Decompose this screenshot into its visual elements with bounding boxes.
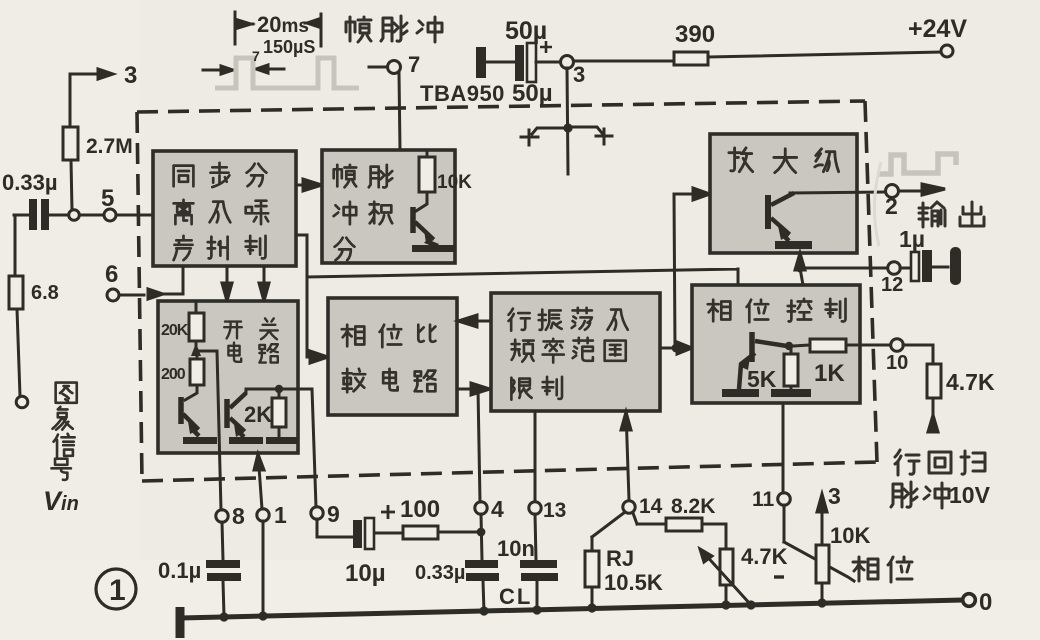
arrows sync down to switch block <box>222 266 269 301</box>
wire 6.8 to input terminal <box>17 309 20 396</box>
arrow up at 20K junction <box>191 343 201 356</box>
svg-text:+24V: +24V <box>908 15 967 43</box>
pin 2 terminal <box>886 185 899 198</box>
svg-text:0: 0 <box>979 589 992 616</box>
node 3 (supply) <box>536 61 560 64</box>
block U1e line oscillator and frequency range limiter <box>491 293 660 411</box>
IC dashed boundary TBA950 <box>137 101 877 481</box>
svg-text:11: 11 <box>752 488 775 511</box>
svg-text:200: 200 <box>161 366 186 383</box>
capacitor 0.33u at pin 4 <box>481 514 484 612</box>
rail junction dots <box>219 598 826 621</box>
resistor internal (white) <box>790 346 793 389</box>
svg-text:4: 4 <box>491 496 504 522</box>
svg-text:2.7M: 2.7M <box>86 135 133 158</box>
wire 1K to pin 10 <box>846 344 890 347</box>
svg-text:10: 10 <box>886 352 908 374</box>
label 150uS <box>263 37 315 57</box>
svg-text:10V: 10V <box>949 482 991 508</box>
svg-text:0.33µ: 0.33µ <box>2 170 58 195</box>
svg-text:3: 3 <box>573 62 585 87</box>
transistor Q2 switch <box>227 393 246 437</box>
arrow into phase comparator <box>307 351 328 363</box>
wire pin7 to integrator block <box>399 73 400 150</box>
svg-text:10K: 10K <box>830 523 870 548</box>
block U1f amplifier stage <box>710 134 857 253</box>
svg-text:CL: CL <box>499 584 532 609</box>
junction dot collector <box>785 342 793 350</box>
capacitor 0.33u input <box>29 199 49 230</box>
input terminal circle <box>16 396 28 408</box>
resistor 4.7K flyback <box>927 364 941 398</box>
pin 12 terminal <box>888 262 901 275</box>
pin 9 terminal <box>311 507 323 519</box>
top-left arrow to node 3 <box>70 69 113 79</box>
svg-text:1: 1 <box>109 574 126 607</box>
resistor 200 <box>185 351 197 400</box>
capacitor 50u (left electrolytic) <box>476 47 486 78</box>
figure number 1 <box>96 569 136 609</box>
resistor 6.8 <box>9 276 23 309</box>
svg-text:150µS: 150µS <box>263 37 315 57</box>
wire 390 to +24V <box>708 52 941 57</box>
resistor RJ 10.5K <box>592 512 625 609</box>
svg-text:RJ: RJ <box>606 546 634 571</box>
svg-text:3: 3 <box>828 483 841 509</box>
svg-text:2: 2 <box>885 193 898 219</box>
wire comparator to oscillator lower with arrow <box>457 383 490 395</box>
label 7 small <box>252 48 260 64</box>
transistor integrator <box>413 207 438 246</box>
label output (shu chu) <box>919 202 984 227</box>
pin 11 terminal <box>778 493 791 506</box>
wire amplifier bottom / pin 12 <box>795 253 887 285</box>
capacitor 1u at pin 12 <box>900 247 961 285</box>
wire oscillator out to phase control <box>660 342 692 354</box>
pin 4 terminal <box>475 502 487 514</box>
svg-text:5: 5 <box>101 185 114 212</box>
potentiometer 4.7K <box>720 549 733 585</box>
resistor 2K <box>278 389 281 437</box>
label 20ms <box>257 12 309 37</box>
wire pin10 to 4.7K <box>903 345 933 364</box>
wire cap to node and pin 5 <box>14 215 153 276</box>
label phase (xiang wei) <box>853 557 912 582</box>
capacitor 0.1u at pin 8 <box>222 522 224 616</box>
wire to pin 4 <box>478 389 480 502</box>
svg-text:4.7K: 4.7K <box>741 544 788 569</box>
label 1u <box>899 226 925 252</box>
transistor amplifier <box>768 193 794 241</box>
20ms dimension marker <box>235 12 321 46</box>
svg-text:14: 14 <box>639 495 663 518</box>
pin 7 terminal <box>369 66 387 69</box>
potentiometer 10K phase <box>784 494 854 604</box>
wire pin6 to sync block <box>119 267 183 299</box>
svg-text:10µ: 10µ <box>345 560 386 587</box>
wire Q2 collector to pin 9 <box>246 389 316 507</box>
junction dot 2K top <box>275 385 283 393</box>
capacitor 10u at pin 9 <box>317 519 403 537</box>
svg-text:6: 6 <box>105 261 118 288</box>
svg-text:6.8: 6.8 <box>31 282 59 304</box>
ground bars phase control <box>722 389 811 397</box>
svg-text:8.2K: 8.2K <box>671 495 715 518</box>
svg-text:8: 8 <box>232 503 245 529</box>
block U1a sync separation and noise suppression <box>153 151 296 266</box>
svg-text:10.5K: 10.5K <box>604 570 663 595</box>
capacitor 50u (right electrolytic) <box>515 41 552 82</box>
svg-text:10n: 10n <box>497 536 535 561</box>
label frame pulse (zhen mai chong) <box>346 16 442 42</box>
ground bar Q1 <box>183 437 217 444</box>
svg-text:10K: 10K <box>437 172 472 193</box>
svg-text:4.7K: 4.7K <box>946 369 995 395</box>
wire sync right side to phase-control (long) <box>296 235 738 357</box>
pin 5 terminal <box>104 209 116 221</box>
block U1g phase control <box>692 285 860 403</box>
resistor 8.2K <box>633 513 726 549</box>
svg-text:7: 7 <box>408 52 420 77</box>
svg-text:1K: 1K <box>814 360 845 387</box>
ground rail <box>180 600 963 638</box>
wire pin 13 <box>534 411 537 501</box>
pin 13 terminal <box>529 502 541 514</box>
wire pin 1 with arrow up into block <box>254 453 264 509</box>
svg-text:12: 12 <box>881 274 903 296</box>
svg-text:9: 9 <box>327 501 340 527</box>
svg-text:20ms: 20ms <box>257 12 309 37</box>
node junction circle <box>69 210 80 221</box>
transistor phase control <box>739 332 787 389</box>
pin 14 terminal <box>623 501 635 513</box>
svg-text:13: 13 <box>543 499 566 522</box>
output waveform (light) <box>879 154 956 174</box>
resistor 1K <box>793 345 810 346</box>
node 3 internal feed with plus taps <box>521 68 612 174</box>
svg-text:7: 7 <box>252 48 260 64</box>
pin 1 terminal <box>257 509 269 521</box>
svg-text:3: 3 <box>124 62 137 89</box>
capacitor 10n CL at pin 13 <box>535 514 537 611</box>
label TBA950 <box>420 81 505 106</box>
wire from arrow down through 2.7M <box>70 74 72 210</box>
output arrow <box>899 184 945 195</box>
rail right terminal 0 <box>963 594 976 607</box>
transistor Q1 switch <box>181 397 199 436</box>
arrow sync to integrator <box>296 179 322 191</box>
svg-text:5K: 5K <box>747 366 777 392</box>
svg-text:20K: 20K <box>161 322 189 339</box>
svg-text:50µ: 50µ <box>512 80 553 107</box>
ground bars Q2 and 2K <box>229 437 297 444</box>
wire junction to pin 8 <box>196 351 221 510</box>
ground bar amplifier <box>775 241 812 249</box>
pin 8 terminal <box>216 510 228 522</box>
pin 6 terminal <box>107 289 119 301</box>
svg-text:1µ: 1µ <box>899 226 925 252</box>
stray pencil mark <box>874 162 881 246</box>
arrow oscillator to comparator <box>458 315 491 327</box>
wire pin 11 up to phase control <box>782 403 785 493</box>
svg-text:TBA950: TBA950 <box>420 81 505 106</box>
pin 10 terminal <box>891 339 904 352</box>
block U1c switch circuit <box>158 301 298 453</box>
ground bar integrator <box>412 245 454 252</box>
svg-text:1: 1 <box>274 502 287 528</box>
wire below 4.7K with up arrow <box>928 398 938 432</box>
wire node3 to 390 <box>574 60 674 63</box>
wire oscillator up to amplifier <box>674 188 710 348</box>
output wire to pin 2 <box>790 192 885 193</box>
wire pin 14 with up arrow <box>621 411 631 500</box>
svg-text:2K: 2K <box>244 402 272 427</box>
label image signal Vin <box>52 383 77 480</box>
wire pin 1 to rail <box>262 521 265 616</box>
block U1b frame pulse integrator <box>322 150 455 263</box>
150uS dimension arrows <box>203 65 284 74</box>
svg-text:0.33µ: 0.33µ <box>415 562 465 584</box>
resistor 2.7M <box>63 127 78 160</box>
wire 100 to pin4 line <box>438 531 481 534</box>
terminal +24V <box>941 45 953 57</box>
svg-text:390: 390 <box>675 21 715 48</box>
resistor 20K <box>195 301 198 351</box>
frame pulse waveform (light) <box>215 58 359 88</box>
label line flyback pulse 10V <box>891 450 985 508</box>
block U1d phase comparator <box>328 298 457 415</box>
svg-text:100: 100 <box>400 496 440 523</box>
svg-text:0.1µ: 0.1µ <box>158 558 201 583</box>
resistor 100 <box>403 526 438 539</box>
resistor 10K integrator <box>416 150 427 211</box>
svg-text:50µ: 50µ <box>505 17 547 45</box>
junction dot <box>474 385 482 393</box>
resistor 390 <box>674 52 708 65</box>
